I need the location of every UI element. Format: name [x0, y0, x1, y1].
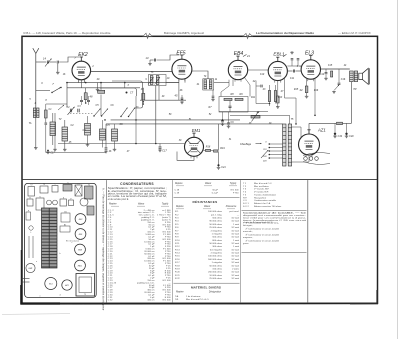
svg-text:1/2 watt: 1/2 watt — [231, 264, 239, 267]
svg-text:moyenne ;: moyenne ; — [243, 237, 254, 239]
svg-text:AZ1: AZ1 — [317, 128, 326, 133]
svg-text:1/2 watt: 1/2 watt — [231, 255, 239, 258]
svg-text:1/2 watt: 1/2 watt — [231, 248, 239, 251]
svg-text:EM1: EM1 — [192, 128, 201, 133]
svg-text:EB4: EB4 — [234, 51, 244, 57]
svg-text:La Documentation du Dépanneur: La Documentation du Dépanneur Radio — [256, 31, 314, 35]
svg-text:R16: R16 — [314, 90, 319, 92]
IF1 secondary drop to C17 — [155, 86, 157, 144]
svg-text:A. — Plan de montage du châssi: A. — Plan de montage du châssis vu de de… — [102, 188, 106, 311]
svg-text:10 000 ohms: 10 000 ohms — [209, 275, 223, 277]
svg-text:TV: TV — [58, 118, 61, 121]
svg-text:C19: C19 — [338, 135, 343, 138]
EF5 bottom feeders — [178, 79, 180, 101]
chassis misc small parts — [61, 213, 70, 222]
svg-text:0,1 µF: 0,1 µF — [212, 192, 219, 194]
svg-text:R 21: R 21 — [175, 275, 180, 277]
svg-text:L: L — [30, 232, 31, 234]
EBL1 grid resistors — [268, 91, 270, 102]
svg-text:1/2 watt: 1/2 watt — [231, 220, 239, 223]
osc grounds — [54, 113, 56, 148]
svg-text:c: c — [72, 242, 73, 244]
winding mid — [100, 129, 106, 140]
chassis part H — [36, 198, 44, 210]
svg-text:C15: C15 — [328, 65, 333, 67]
svg-text:Repère: Repère — [176, 292, 184, 294]
svg-text:musicale ;: musicale ; — [243, 231, 253, 233]
svg-text:R 12: R 12 — [175, 246, 180, 248]
col3 rule 2 — [174, 282, 240, 284]
svg-text:50 µF: 50 µF — [212, 190, 218, 192]
col4 rule — [242, 209, 307, 211]
tube EM1 magic eye — [185, 137, 204, 156]
svg-text:1/2 watt: 1/2 watt — [231, 232, 239, 235]
coupling capacitor to EL3 — [287, 70, 292, 72]
svg-text:Bobinage CHAMPS, Argenteuil: Bobinage CHAMPS, Argenteuil — [164, 31, 204, 35]
winding C10 — [85, 124, 91, 136]
svg-text:1/2 watt: 1/2 watt — [231, 217, 239, 220]
svg-text:1ᵉʳ transfo. M.F.: 1ᵉʳ transfo. M.F. — [254, 188, 270, 191]
svg-text:Repère: Repère — [109, 204, 117, 206]
column divider 1 — [106, 180, 108, 303]
capacitor C7 dot — [126, 92, 128, 94]
svg-text:1/2 watt: 1/2 watt — [231, 226, 239, 229]
tube circle V5 — [45, 278, 57, 290]
frame corner shadow bottom-left — [21, 285, 60, 304]
svg-text:T.A.: T.A. — [175, 295, 179, 298]
svg-text:1/2 watt: 1/2 watt — [231, 242, 239, 245]
rounded wire B — [100, 88, 137, 96]
EB4 to EBL1 wire — [248, 69, 269, 71]
transformer primary taps — [270, 143, 283, 145]
svg-text:1 watt: 1 watt — [233, 223, 239, 226]
IF1 drop2 — [158, 86, 160, 101]
chassis part C — [52, 186, 58, 193]
svg-text:90 000 ohms: 90 000 ohms — [209, 221, 223, 223]
svg-text:Bobine à fer C.A.: Bobine à fer C.A. — [254, 202, 271, 205]
tube EK2 — [72, 61, 91, 80]
vertical feeder x67 — [66, 83, 68, 107]
column divider 4 — [307, 180, 309, 303]
svg-text:En résistance: En résistance — [66, 240, 80, 243]
svg-text:MATÉRIEL DIVERS: MATÉRIEL DIVERS — [191, 285, 221, 290]
svg-text:1 mégohm: 1 mégohm — [212, 233, 223, 235]
svg-text:1/2 watt: 1/2 watt — [231, 236, 239, 239]
svg-text:Repère: Repère — [175, 183, 183, 185]
EBL1 right feed — [284, 78, 286, 98]
svg-text:Typ(e): Typ(e) — [162, 204, 169, 206]
tube circle V3 — [75, 244, 86, 255]
scan page bottom faint line — [2, 314, 70, 315]
capacitor 13 — [153, 59, 155, 62]
svg-text:S.V. 1: S.V. 1 — [243, 203, 250, 205]
svg-text:EK2: EK2 — [78, 52, 88, 58]
EK2 bottom connections — [77, 79, 79, 82]
svg-text:1 watt: 1 watt — [233, 239, 239, 242]
svg-text:800 ohms: 800 ohms — [212, 240, 223, 242]
svg-text:50 000 ohms: 50 000 ohms — [209, 224, 223, 226]
svg-text:T1: T1 — [88, 184, 90, 186]
svg-text:250 000 ohms: 250 000 ohms — [208, 272, 223, 274]
svg-text:M 1 500: M 1 500 — [231, 190, 240, 192]
svg-text:C.V.: C.V. — [243, 200, 247, 202]
tear ornament left — [143, 33, 152, 38]
svg-text:B2: B2 — [64, 225, 66, 227]
svg-text:R 11: R 11 — [175, 243, 180, 245]
wire to EK2 grid cap — [59, 57, 79, 62]
switch arrows right — [121, 108, 128, 117]
svg-text:2ᵉ transfo. M.F.: 2ᵉ transfo. M.F. — [254, 191, 269, 194]
svg-text:C10: C10 — [260, 74, 265, 76]
svg-text:1 fer d'antenne: 1 fer d'antenne — [186, 295, 201, 298]
svg-text:EBL1: EBL1 — [78, 266, 82, 268]
EK2 screen dropper — [100, 83, 102, 90]
svg-text:T4: T4 — [67, 183, 69, 185]
svg-text:Condensateur variable: Condensateur variable — [254, 199, 277, 202]
left drop cap — [105, 124, 107, 147]
svg-text:T5: T5 — [89, 199, 91, 201]
trimmer capacitor 14 — [36, 61, 46, 63]
chassis sockets — [47, 200, 52, 205]
chassis part I — [60, 199, 67, 206]
svg-text:R 13: R 13 — [175, 249, 180, 251]
IF transformer 1 — [149, 75, 167, 86]
svg-text:EM1: EM1 — [29, 268, 33, 270]
EK2 plate wire to EF5 — [91, 71, 172, 73]
svg-text:1/2 watt: 1/2 watt — [231, 274, 239, 277]
svg-text:H.P.: H.P. — [243, 197, 247, 199]
svg-text:T.B.: T.B. — [175, 299, 179, 301]
svg-text:R11: R11 — [251, 97, 256, 99]
column divider 2 — [172, 180, 174, 303]
svg-text:Spécifications : P, papier, no: Spécifications : P, papier, non tropical… — [108, 187, 167, 190]
svg-text:R 22: R 22 — [175, 278, 180, 280]
tube circle V1 — [75, 214, 86, 225]
svg-text:1 watt: 1 watt — [233, 245, 239, 248]
svg-text:1/2 watt: 1/2 watt — [231, 258, 239, 261]
svg-text:R 14: R 14 — [175, 253, 180, 255]
chassis small circle left — [26, 263, 35, 272]
svg-text:Valeur: Valeur — [205, 183, 212, 185]
svg-text:Haut-parleur: Haut-parleur — [254, 196, 266, 199]
chassis part K hatched — [87, 206, 94, 215]
svg-text:2 watts: 2 watts — [232, 267, 240, 270]
svg-text:100 cm: 100 cm — [147, 299, 154, 301]
EF5 plate to IF2 — [192, 71, 208, 79]
AZ1 plate leads — [292, 126, 301, 128]
svg-text:500 000 ohms: 500 000 ohms — [208, 259, 223, 261]
EM1 B feed vertical — [218, 124, 220, 150]
svg-text:C 28: C 28 — [175, 190, 180, 192]
svg-text:T5: T5 — [84, 294, 86, 296]
svg-text:Bobine correction 700 ohms: Bobine correction 700 ohms — [254, 205, 282, 208]
svg-text:en volts. La tension d'essai p: en volts. La tension d'essai pour P et M… — [108, 195, 168, 198]
svg-text:C17: C17 — [50, 153, 55, 155]
col3 rule — [174, 196, 240, 198]
ground right of EK2 — [97, 83, 99, 88]
dial block — [42, 208, 58, 268]
bus y119.9 — [111, 119, 240, 121]
svg-text:b: b — [59, 253, 60, 255]
tube circle V4 — [75, 260, 86, 271]
svg-text:RÉSISTANCES: RÉSISTANCES — [192, 199, 217, 204]
filter choke — [337, 122, 343, 124]
svg-text:T2: T2 — [30, 185, 32, 187]
svg-text:C12: C12 — [297, 65, 302, 68]
svg-text:100 000 ohms: 100 000 ohms — [208, 256, 223, 258]
column divider 3 — [239, 180, 241, 303]
svg-text:R15: R15 — [294, 89, 299, 91]
antenna — [33, 48, 36, 53]
volume potentiometer — [251, 116, 260, 118]
tube EL3 — [301, 60, 320, 79]
tube EB4 — [228, 60, 247, 79]
tube EBL1 — [268, 61, 287, 80]
svg-text:2 mégohms: 2 mégohms — [211, 253, 223, 255]
svg-text:Repère: Repère — [176, 206, 184, 208]
svg-text:pot. tonal.: pot. tonal. — [229, 210, 239, 213]
svg-text:R 18: R 18 — [175, 265, 180, 267]
svg-text:R 16: R 16 — [175, 259, 180, 261]
third coil — [112, 129, 118, 141]
svg-text:HP: HP — [353, 89, 357, 91]
electrolytic C19 — [334, 123, 336, 132]
svg-text:B1: B1 — [64, 212, 66, 214]
svg-text:Typ(e): Typ(e) — [230, 183, 237, 185]
electrolytic C20 — [346, 123, 348, 132]
svg-text:1/2 watt: 1/2 watt — [231, 229, 239, 232]
svg-text:Puissance: Puissance — [226, 206, 237, 208]
svg-text:R13: R13 — [278, 97, 283, 99]
EB4 bottom verticals — [232, 80, 234, 87]
svg-text:AZ1: AZ1 — [64, 284, 68, 287]
svg-text:— Edition M. P. CHOPXX: — Edition M. P. CHOPXX — [338, 31, 371, 35]
capacitor C21 — [217, 164, 219, 166]
chassis part B — [40, 186, 48, 193]
tube circle V6 — [62, 280, 72, 290]
chassis outline — [25, 183, 97, 297]
svg-text:500 ohms: 500 ohms — [212, 218, 223, 220]
heater bus 2 — [46, 152, 106, 154]
svg-text:R19: R19 — [220, 147, 225, 150]
svg-text:R 19: R 19 — [175, 268, 180, 270]
horizontal divider — [22, 179, 378, 181]
cap C17b ground cluster — [47, 150, 49, 152]
svg-text:C14: C14 — [320, 73, 325, 76]
svg-text:C 32: C 32 — [108, 299, 113, 301]
svg-text:d: d — [59, 295, 60, 297]
svg-text:Bloc d'accord O.C.: Bloc d'accord O.C. — [254, 182, 273, 185]
chassis part F hatched — [85, 186, 94, 199]
frame corner shadow bottom-right — [350, 290, 377, 304]
wire IF2 to EB4 — [214, 82, 229, 84]
svg-text:C 29: C 29 — [175, 192, 180, 194]
EM1 resistors — [206, 149, 211, 151]
svg-text:Désignation: Désignation — [209, 291, 222, 294]
svg-text:21: 21 — [246, 54, 250, 58]
tone network — [325, 69, 327, 72]
resistor 45 cap — [181, 97, 184, 99]
switch arrows mid — [94, 109, 101, 117]
svg-text:R 20: R 20 — [175, 272, 180, 274]
svg-text:T3: T3 — [43, 184, 45, 186]
dial lamps — [304, 157, 308, 161]
svg-text:R 15: R 15 — [175, 256, 180, 258]
svg-text:grave.: grave. — [243, 242, 249, 245]
svg-text:pteur, tensions de service qui: pteur, tensions de service qui ont, indi… — [108, 193, 168, 196]
tube AZ1 rectifier — [299, 134, 320, 155]
caps C9 C10 — [221, 120, 224, 122]
svg-text:EBL1: EBL1 — [273, 51, 285, 56]
svg-text:EB4: EB4 — [78, 249, 82, 252]
gang link dashed — [70, 113, 94, 115]
svg-text:R18: R18 — [206, 146, 211, 149]
svg-text:TA: TA — [29, 122, 32, 125]
svg-text:150 ohms: 150 ohms — [212, 268, 223, 270]
capacitor C17 — [159, 144, 161, 147]
svg-text:25 000 ohms: 25 000 ohms — [209, 278, 223, 280]
oscillator coil — [62, 127, 68, 141]
IF transformer 2 / EB4 resistors — [203, 79, 214, 90]
svg-text:Bloc d'accord P.O.-G.O.: Bloc d'accord P.O.-G.O. — [186, 298, 210, 301]
trimmer caps left — [69, 109, 71, 113]
vertical feeder x136 — [135, 96, 137, 144]
antenna coil L1 — [33, 108, 35, 118]
band switch contacts — [52, 88, 61, 93]
chassis transformer square — [76, 274, 95, 297]
cap ground under IF2 — [212, 90, 214, 96]
svg-text:0,5 mégohm: 0,5 mégohm — [210, 249, 222, 251]
svg-text:1/2 watt: 1/2 watt — [231, 252, 239, 255]
bus screen grid — [67, 82, 179, 84]
power transformer T5 — [283, 124, 286, 166]
svg-text:pot. 1 még.: pot. 1 még. — [211, 213, 222, 216]
svg-text:Valeur: Valeur — [204, 206, 211, 208]
screen caps C11 C12 — [287, 65, 292, 67]
svg-text:Transfo. d'alimentation: Transfo. d'alimentation — [254, 193, 277, 196]
svg-text:R.B.L. — 118, boulevard Vil: R.B.L. — 118, boulevard Villette, Paris … — [24, 31, 112, 35]
mixer cluster left — [45, 110, 48, 118]
svg-text:25 000 ohms: 25 000 ohms — [209, 227, 223, 229]
EBL1 bottom resistor — [277, 96, 280, 103]
svg-text:300 ohms: 300 ohms — [212, 246, 223, 248]
svg-text:C16: C16 — [341, 78, 346, 81]
caps C13 pair — [80, 99, 83, 101]
svg-text:C17: C17 — [162, 149, 167, 153]
chassis part E — [75, 185, 82, 196]
col4 closing rule — [242, 251, 307, 253]
svg-text:C21: C21 — [221, 166, 226, 169]
EL3 plate wire — [321, 68, 350, 70]
EM1 loop below — [177, 152, 194, 161]
rounded wire A — [112, 81, 143, 108]
svg-text:Valeur: Valeur — [138, 204, 145, 206]
svg-text:1/2 watt: 1/2 watt — [231, 271, 239, 274]
EL3 cathode resistor 44 — [305, 86, 308, 93]
tube circle V2 — [75, 229, 86, 240]
svg-text:50 000 ohms: 50 000 ohms — [209, 265, 223, 267]
diode load box — [219, 97, 248, 113]
svg-text:1 mégohm: 1 mégohm — [212, 262, 223, 264]
chassis left leads — [22, 278, 30, 280]
field coil feed — [350, 82, 352, 124]
scan page right edge — [397, 0, 399, 339]
tear ornament right — [243, 33, 253, 38]
tube EF5 — [172, 59, 192, 79]
EL3 bottom feed — [314, 79, 316, 116]
resistor 48 under EK2 — [84, 93, 87, 100]
chassis part A — [28, 187, 35, 197]
svg-text:R 10: R 10 — [175, 240, 180, 242]
svg-text:1/2 watt: 1/2 watt — [231, 261, 239, 264]
svg-text:100 000 ohms: 100 000 ohms — [208, 211, 223, 213]
AZ1 output to filter — [308, 123, 310, 134]
svg-text:1/2 watt: 1/2 watt — [231, 277, 239, 280]
chassis left small rect — [26, 212, 31, 220]
svg-text:lité aiguë ;: lité aiguë ; — [243, 224, 253, 227]
svg-text:500 ohms: 500 ohms — [212, 237, 223, 239]
resistor 48b — [142, 93, 145, 100]
chassis part D hatched — [63, 185, 72, 192]
svg-text:4º Commutateur en circuit,: 4º Commutateur en circuit, tonalité — [246, 239, 280, 242]
svg-text:EL3: EL3 — [305, 51, 314, 57]
antenna tuning coil TV — [50, 122, 56, 136]
svg-text:e: e — [39, 296, 40, 298]
EBL1 lower wires — [255, 81, 257, 104]
bus y123.9 — [106, 123, 283, 125]
svg-text:et de service pour E.: et de service pour E. — [108, 198, 129, 201]
svg-text:Bloc oscillateur: Bloc oscillateur — [254, 185, 269, 188]
svg-text:CONDENSATEURS: CONDENSATEURS — [120, 182, 154, 186]
svg-text:S.V. 2: S.V. 2 — [243, 206, 250, 208]
lamp bracket swoosh — [303, 153, 330, 156]
output transformer — [350, 71, 354, 82]
svg-text:M 1 500: M 1 500 — [163, 299, 172, 301]
svg-text:50 000 ohms: 50 000 ohms — [209, 243, 223, 245]
ground antenna coil — [35, 147, 37, 148]
capacitor 16 — [50, 61, 57, 63]
chassis part G — [27, 199, 33, 206]
svg-text:Chauffage: Chauffage — [240, 143, 252, 146]
heater bus — [58, 143, 184, 145]
bus y100 — [140, 99, 186, 101]
ground capacitor 16 — [57, 71, 59, 72]
svg-text:R 17: R 17 — [175, 262, 180, 264]
svg-text:2 mégohms: 2 mégohms — [211, 230, 223, 232]
bus B — [67, 87, 140, 89]
svg-text:C11: C11 — [290, 77, 295, 80]
chassis part J — [69, 200, 74, 206]
speaker — [359, 73, 363, 79]
svg-text:P 750: P 750 — [233, 192, 239, 194]
svg-text:EF5: EF5 — [176, 51, 185, 57]
mains switch contacts — [261, 150, 268, 158]
border frame — [22, 36, 378, 303]
chassis circle Tr — [80, 198, 88, 206]
svg-text:C20: C20 — [349, 135, 354, 138]
